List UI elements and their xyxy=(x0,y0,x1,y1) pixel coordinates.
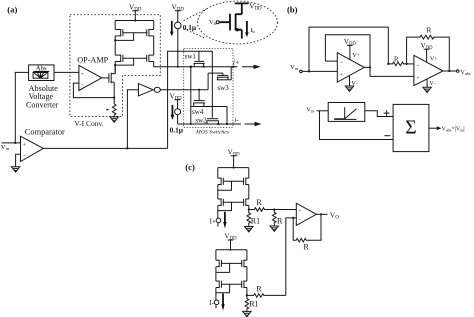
wire mirror left branch xyxy=(114,21,116,74)
node Vin feedback junction xyxy=(308,70,310,72)
resistor R1 (c bottom) xyxy=(243,295,259,316)
power VDD A1 xyxy=(344,38,360,60)
node sw1 right stub xyxy=(203,66,205,68)
inverter U2 xyxy=(126,84,160,150)
wire Vin to rectifier block xyxy=(317,110,329,112)
svg-text:R: R xyxy=(304,243,310,252)
wire inner feedback loop A1 xyxy=(325,35,370,68)
node A2 minus junction xyxy=(406,63,408,65)
block rectifier xyxy=(328,103,365,122)
svg-text:R: R xyxy=(394,57,399,64)
transistor M10 (c bottom mirror UL PMOS) xyxy=(216,260,222,268)
op-amp A1 xyxy=(337,53,364,82)
svg-text:sw3: sw3 xyxy=(217,84,229,92)
wire op-amp feedback xyxy=(73,83,114,98)
ground comparator xyxy=(11,167,19,172)
wire right branch (c top) xyxy=(248,168,250,210)
svg-text:R: R xyxy=(256,198,262,207)
arrow Ib xyxy=(245,21,255,37)
svg-text:Vin: Vin xyxy=(1,144,10,151)
block Abs (absolute voltage converter) xyxy=(29,65,54,81)
svg-text:R1: R1 xyxy=(249,300,258,309)
wire comparator ctrl to sw1 sw2 gates xyxy=(168,51,213,148)
node lower-left drain xyxy=(114,64,116,66)
svg-text:i+: i+ xyxy=(233,59,240,67)
node Vb terminal xyxy=(209,19,219,26)
wire outer feedback loop xyxy=(309,27,388,71)
transistor sw1 xyxy=(185,51,205,67)
MOS switches dotted box xyxy=(184,48,233,127)
balloon dashed ellipse xyxy=(198,1,278,44)
node upper-left drain xyxy=(114,39,116,41)
transistor M5 (V-I NMOS) xyxy=(102,73,115,84)
power VDD mirror bottom (c) xyxy=(224,233,237,251)
svg-text:Vin: Vin xyxy=(306,107,315,114)
wire VDD rail bottom (c) xyxy=(216,249,247,251)
wire R to A2 minus xyxy=(407,63,414,65)
node sw2 right stub xyxy=(217,123,219,125)
node I- terminal xyxy=(209,299,219,307)
wire left branch (c top) xyxy=(217,168,219,227)
balloon callout dashed lines xyxy=(184,9,207,38)
wire Vin to comparator xyxy=(2,142,21,144)
wire lower diode link xyxy=(115,58,133,65)
svg-text:-: - xyxy=(417,62,419,69)
power VDD mirror top (c) xyxy=(228,148,241,168)
wire inverter output to sw4 sw3 gates xyxy=(160,73,223,90)
power VDD mirror xyxy=(129,3,142,21)
wire Vin to op-amp A1 xyxy=(302,70,337,72)
wire Abs output to op-amp xyxy=(54,71,79,73)
svg-text:R: R xyxy=(277,216,283,225)
resistor R1 (c top) xyxy=(245,210,261,232)
transistor M6 (c top mirror UL PMOS) xyxy=(218,178,224,186)
svg-text:+: + xyxy=(416,76,419,82)
wire sw4 to i- rail xyxy=(226,107,228,125)
transistor M1 (mirror upper-left PMOS) xyxy=(115,29,123,36)
svg-text:V-I Conv.: V-I Conv. xyxy=(74,119,103,128)
V-I converter dashed box xyxy=(70,15,160,117)
wire v1 rail to rail xyxy=(190,67,192,124)
node feedback tap xyxy=(292,217,294,219)
arrow I+ current xyxy=(223,212,226,229)
svg-text:I-: I- xyxy=(209,299,214,307)
wire lower gate rail xyxy=(123,57,147,59)
wire upper diode link (c top) xyxy=(218,181,232,190)
node R junction (c top) xyxy=(248,208,250,210)
svg-text:Vabs=|Vin|: Vabs=|Vin| xyxy=(442,127,465,133)
block summer xyxy=(393,104,429,151)
transistor M2 (mirror upper-right PMOS) xyxy=(147,29,154,36)
svg-text:Vabs: Vabs xyxy=(460,69,471,76)
svg-text:V+: V+ xyxy=(352,52,360,59)
wire mirror right branch xyxy=(153,21,155,67)
wire lower diode link (c top) xyxy=(218,202,232,210)
comparator U3 xyxy=(21,128,66,162)
wire A1 minus input xyxy=(325,60,337,62)
svg-text:R1: R1 xyxy=(251,216,260,225)
resistor R feedback (b) xyxy=(407,26,450,71)
transistor sw4 xyxy=(192,89,205,116)
current source I2 xyxy=(175,109,181,124)
svg-text:V-: V- xyxy=(429,80,436,87)
svg-text:0.1µ: 0.1µ xyxy=(183,23,197,32)
node Vin junction xyxy=(14,142,16,144)
svg-text:(a): (a) xyxy=(7,4,17,14)
wire NMOS drain up to mirror xyxy=(114,65,116,74)
svg-text:Converter: Converter xyxy=(26,100,59,109)
transistor sw2 xyxy=(195,117,218,125)
label minus sign xyxy=(384,135,390,137)
wire i- rail with arrow xyxy=(178,123,241,125)
wire sw3 right stub to i+ rail xyxy=(230,67,232,80)
svg-text:R: R xyxy=(256,284,262,293)
svg-text:-: - xyxy=(23,153,25,160)
node feedback junction xyxy=(113,97,115,99)
wire rectifier to summer plus xyxy=(365,111,393,117)
op-amp A3 xyxy=(296,203,316,225)
wire left branch (c bottom) xyxy=(215,250,217,308)
svg-text:-: - xyxy=(299,217,301,223)
svg-text:MOS Switches: MOS Switches xyxy=(195,130,230,136)
svg-text:-: - xyxy=(340,59,342,66)
power VDD current source 2 xyxy=(170,92,183,108)
wire summer output arrow xyxy=(429,126,441,130)
power VDD balloon xyxy=(235,2,262,14)
transistor M12 (c bottom mirror LL PMOS) xyxy=(216,281,222,289)
resistor R (V-I) xyxy=(112,104,116,117)
wire sw4 channel rail xyxy=(191,106,227,108)
node A2 output junction xyxy=(448,70,450,72)
power VDD current source 1 xyxy=(172,3,185,23)
wire A3 minus input xyxy=(286,218,297,296)
transistor M4 (mirror lower-right PMOS) xyxy=(147,55,154,62)
wire upper gate rail xyxy=(123,32,147,34)
svg-text:+: + xyxy=(298,208,301,214)
label V- and ground A1 xyxy=(345,76,358,92)
arrow I- current xyxy=(221,294,224,311)
label plus sign xyxy=(384,110,390,116)
node R input junction xyxy=(387,63,389,65)
svg-text:Vb: Vb xyxy=(209,19,217,26)
resistor R horizontal (c top) xyxy=(249,198,296,211)
svg-text:(b): (b) xyxy=(287,5,298,15)
arrow current 2 xyxy=(171,105,175,120)
svg-text:Σ: Σ xyxy=(405,118,416,139)
wire Vin to summer minus xyxy=(320,111,394,140)
current source I1 xyxy=(175,22,182,68)
label Absolute Voltage Converter xyxy=(26,84,59,110)
wire A2 output to Vabs xyxy=(443,69,471,76)
svg-text:R: R xyxy=(426,26,431,35)
wire lower diode link (c bottom) xyxy=(216,284,230,292)
op-amp U1 xyxy=(77,55,108,90)
svg-text:sw1: sw1 xyxy=(185,52,197,60)
svg-text:+: + xyxy=(81,72,84,78)
transistor sw3 xyxy=(217,75,231,92)
node VDD rail junction xyxy=(134,19,136,21)
ground V-I resistor xyxy=(110,117,118,122)
wire upper diode link xyxy=(115,33,133,41)
node I+ terminal xyxy=(210,217,221,225)
resistor R series (b) xyxy=(388,57,406,66)
wire right branch (c bottom) xyxy=(246,250,248,296)
wire upper gate rail (c top) xyxy=(223,180,243,182)
resistor R horizontal (c bottom) xyxy=(247,284,286,297)
wire comparator minus to ground xyxy=(16,154,21,167)
transistor M11 (c bottom mirror UR PMOS) xyxy=(242,260,247,268)
transistor M9 (c top mirror LR PMOS) xyxy=(244,198,249,206)
transistor Mb (balloon NMOS) xyxy=(219,14,242,39)
wire A1 output xyxy=(364,67,414,76)
svg-text:Comparator: Comparator xyxy=(25,128,65,137)
wire Vin up to Abs input xyxy=(15,72,28,142)
transistor M7 (c top mirror UR PMOS) xyxy=(244,178,249,186)
label V- and ground A2 xyxy=(423,79,436,93)
svg-text:Vin: Vin xyxy=(290,64,299,71)
wire A3 output Vo xyxy=(316,210,339,220)
transistor M3 (mirror lower-left PMOS) xyxy=(115,55,123,62)
svg-text:0.1µ: 0.1µ xyxy=(170,125,184,134)
node Vin (b) terminal xyxy=(290,64,302,73)
svg-text:-: - xyxy=(81,82,83,88)
power VDD A2 xyxy=(421,42,438,62)
transistor M8 (c top mirror LL PMOS) xyxy=(218,198,224,206)
transistor M13 (c bottom mirror LR PMOS) xyxy=(242,281,247,289)
svg-text:sw4: sw4 xyxy=(192,108,204,116)
wire VDD rail xyxy=(115,20,154,22)
wire VDD rail top (c) xyxy=(218,167,249,169)
wire upper diode link (c bottom) xyxy=(216,263,230,272)
wire i+ rail with arrow xyxy=(154,66,238,68)
svg-text:+: + xyxy=(340,73,343,79)
node R junction (c bottom) xyxy=(246,294,248,296)
svg-text:I+: I+ xyxy=(210,217,216,225)
node A1 output junction xyxy=(369,66,371,68)
svg-text:i-: i- xyxy=(234,116,239,124)
wire lower gate rail (c top) xyxy=(223,201,243,203)
wire upper gate rail (c bottom) xyxy=(221,262,241,264)
svg-text:(c): (c) xyxy=(185,162,195,172)
node i+ junction xyxy=(232,66,234,68)
svg-text:OP-AMP: OP-AMP xyxy=(77,55,108,64)
svg-text:V+: V+ xyxy=(430,55,438,62)
wire NMOS source down xyxy=(113,82,115,104)
resistor R feedback (c) xyxy=(293,214,321,251)
wire lower gate rail (c bottom) xyxy=(221,283,241,285)
op-amp A2 xyxy=(414,55,443,85)
arrow current 1 xyxy=(170,21,174,37)
wire comparator output xyxy=(43,147,167,149)
current direction mark xyxy=(106,109,109,111)
resistor R middle (c) xyxy=(270,208,283,231)
